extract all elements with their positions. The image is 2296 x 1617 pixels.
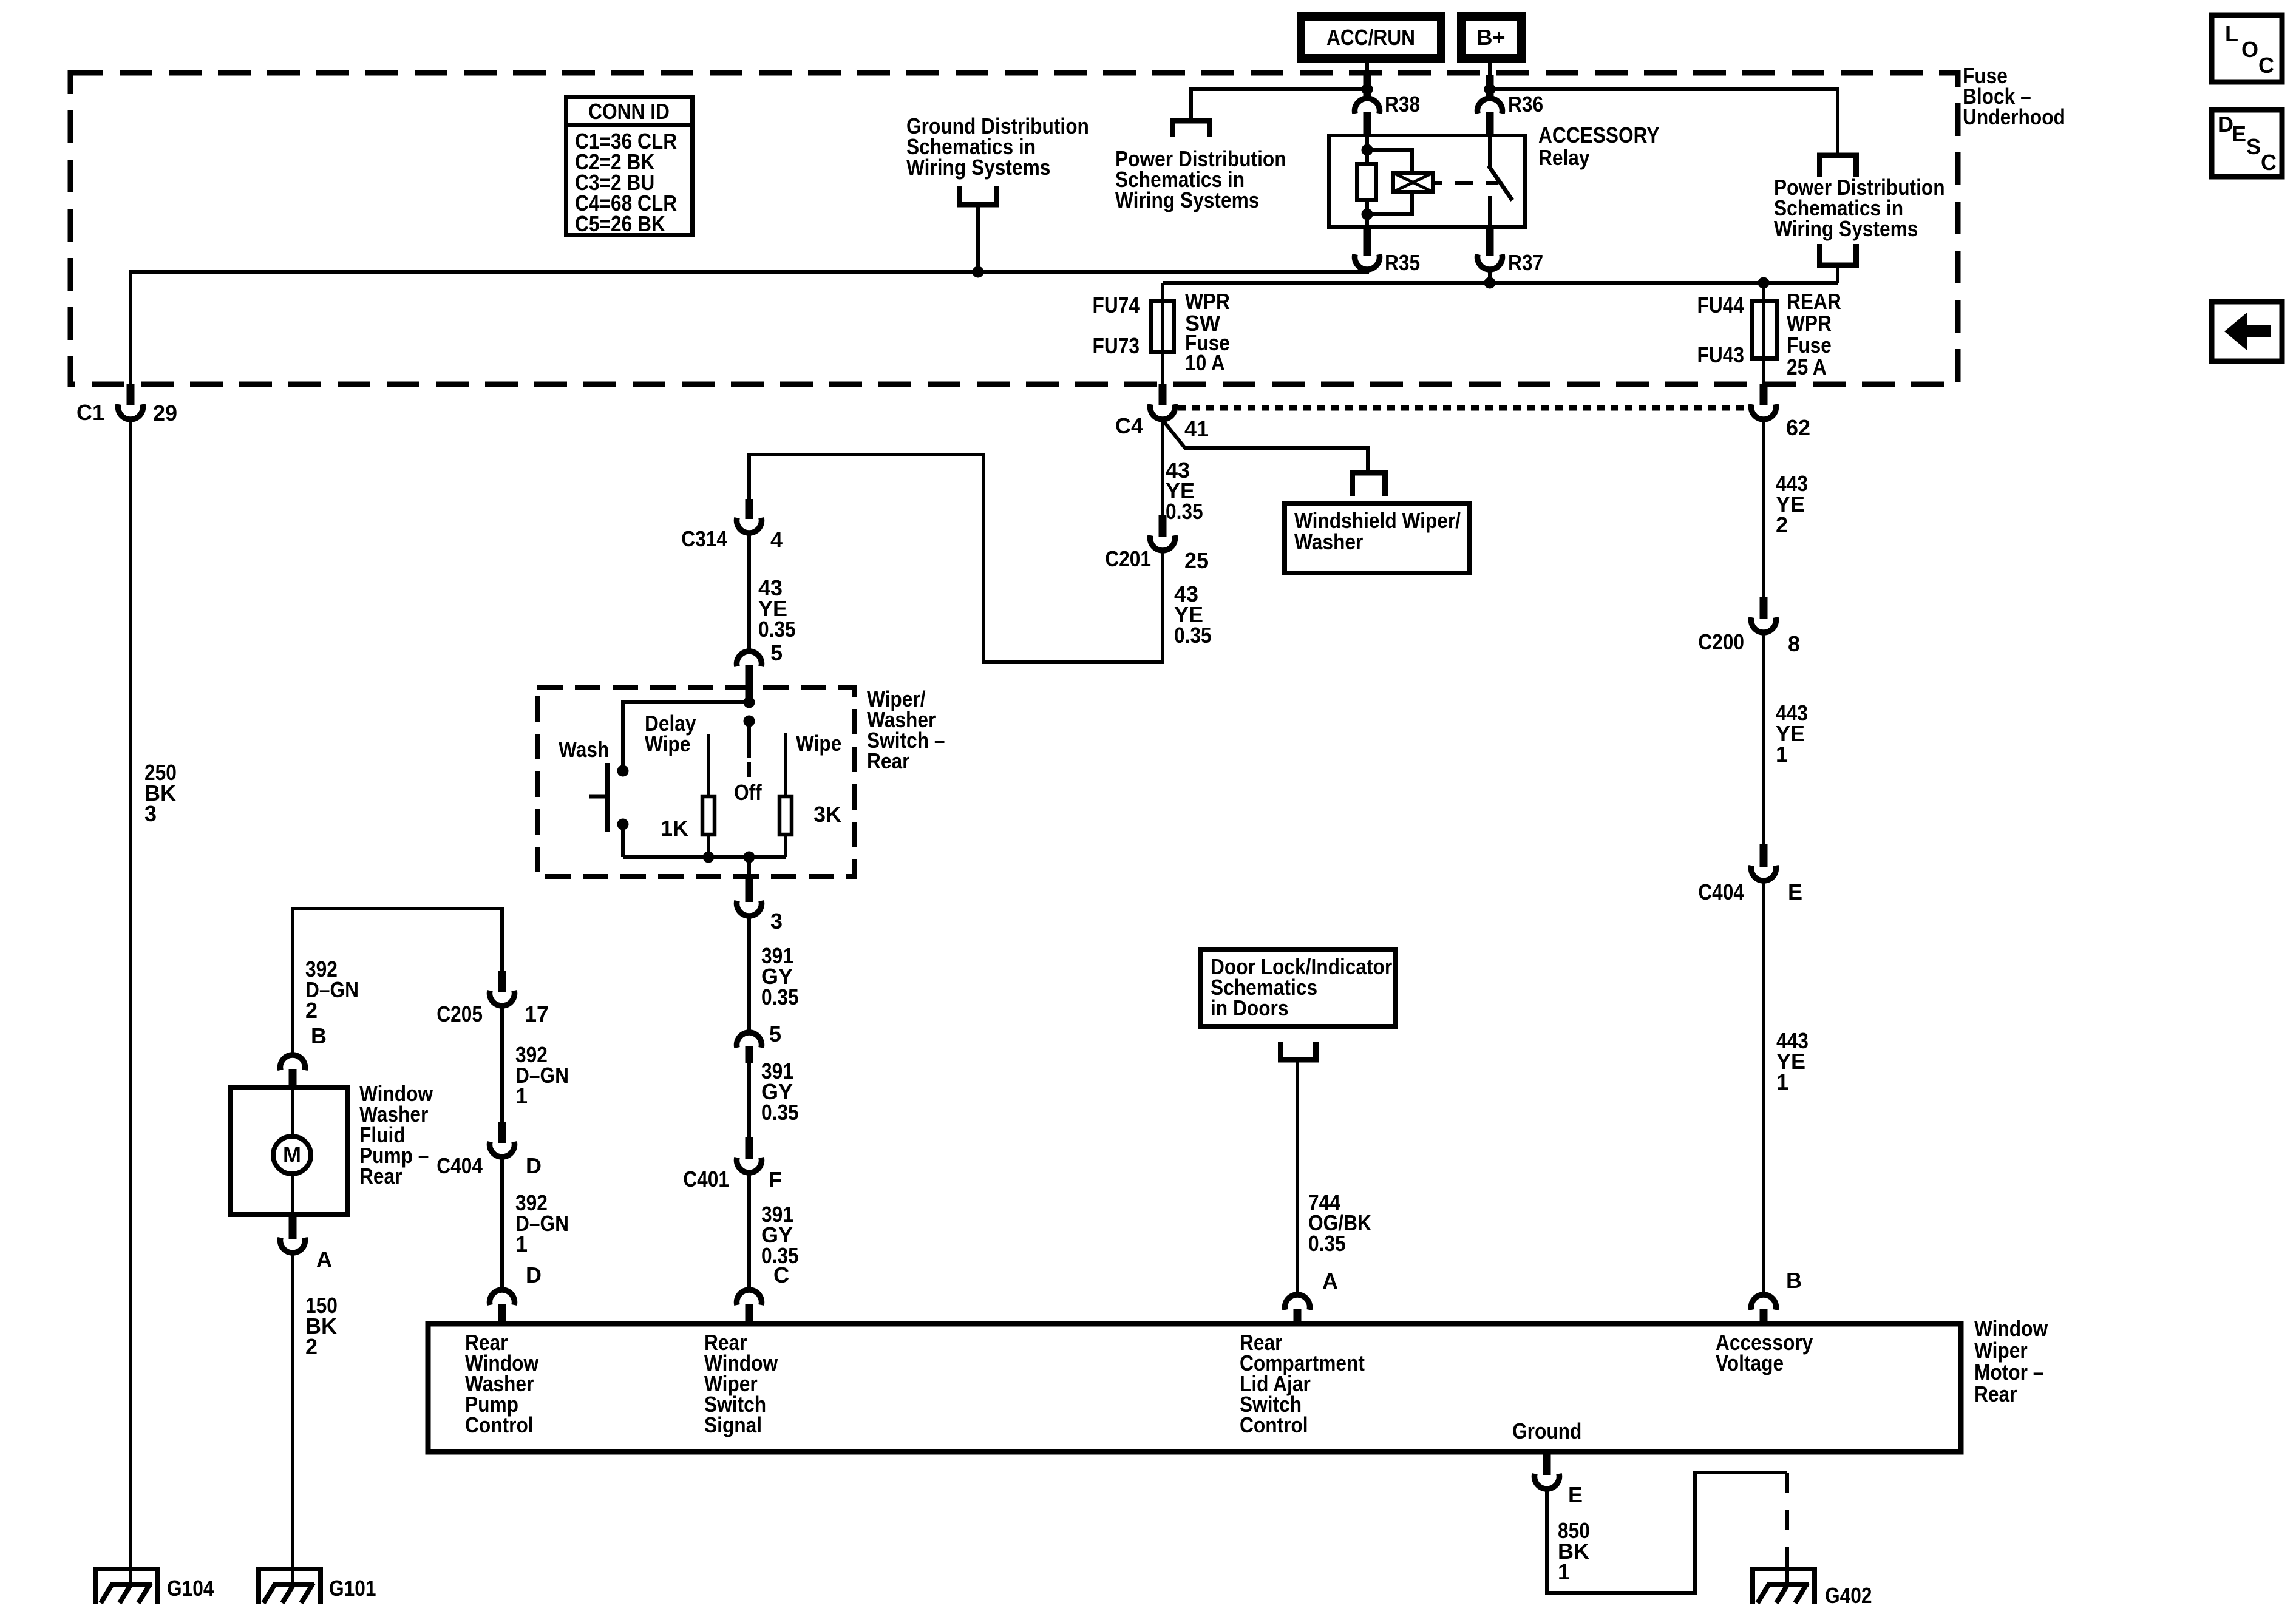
- wire feed bus (lower horizontal): [1163, 281, 1838, 285]
- wire to Power Distribution (right): [1490, 89, 1838, 153]
- switch pin 3: [737, 879, 783, 934]
- wire 391 GY 0.35 (pin3 to pin5): [747, 915, 751, 1030]
- svg-text:Relay: Relay: [1538, 145, 1590, 170]
- box Window Wiper Motor - Rear: [428, 1324, 1961, 1452]
- label: wire 43 YE 0.35 (middle): [1174, 581, 1212, 648]
- connector C404 pin D: [436, 1122, 542, 1178]
- svg-text:B+: B+: [1476, 25, 1505, 50]
- junction dot Ground Distribution: [973, 266, 984, 278]
- svg-text:1: 1: [1776, 1070, 1788, 1094]
- svg-text:C: C: [773, 1263, 789, 1287]
- motor pin A: [1285, 1269, 1339, 1321]
- wire to Power Distribution (left): [1191, 89, 1367, 118]
- resistor 1K lead: [707, 734, 710, 857]
- svg-text:A: A: [316, 1247, 332, 1272]
- wire 443 YE 1 (C404 to motor pin B): [1762, 880, 1765, 1295]
- svg-text:B: B: [311, 1023, 327, 1048]
- off-page bracket Door Lock: [1281, 1042, 1316, 1060]
- svg-text:C404: C404: [436, 1153, 483, 1178]
- svg-text:5: 5: [769, 1022, 781, 1046]
- svg-text:C5=26 BK: C5=26 BK: [575, 211, 665, 236]
- svg-text:CONN ID: CONN ID: [588, 99, 670, 124]
- label: Wiper/Washer Switch - Rear: [867, 686, 945, 773]
- svg-text:2: 2: [305, 1334, 318, 1359]
- svg-text:Wash: Wash: [559, 737, 609, 762]
- svg-text:ACCESSORY: ACCESSORY: [1538, 123, 1660, 147]
- wire 43 YE 0.35 (C314 to switch pin 5): [747, 532, 751, 651]
- label: motor terminal Accessory Voltage: [1716, 1330, 1813, 1375]
- switch box Wiper/Washer Switch - Rear (dashed): [537, 688, 855, 876]
- connector C201 pin 25: [1105, 515, 1209, 573]
- wire bus to R35 (upper horizontal): [131, 270, 1367, 274]
- svg-text:C404: C404: [1698, 880, 1744, 904]
- switch wire to Wash contact: [623, 702, 749, 771]
- label: wire 443 YE 1 (upper): [1776, 700, 1808, 767]
- off-page bracket Ground Distribution: [960, 186, 997, 205]
- svg-text:in Doors: in Doors: [1211, 995, 1289, 1020]
- svg-text:3: 3: [144, 801, 157, 826]
- svg-text:C401: C401: [683, 1167, 729, 1192]
- relay switch contact: [1486, 134, 1512, 229]
- svg-text:Rear: Rear: [359, 1164, 402, 1188]
- label: Delay Wipe: [645, 711, 696, 756]
- svg-text:G104: G104: [167, 1576, 214, 1601]
- switch arm (Off position): [747, 721, 751, 777]
- svg-text:Off: Off: [734, 780, 763, 805]
- wire 392 D-GN 2 (motor D to pump B): [293, 909, 502, 1053]
- svg-text:Control: Control: [1240, 1412, 1308, 1437]
- svg-text:WPR: WPR: [1185, 289, 1230, 314]
- svg-text:C4: C4: [1115, 413, 1143, 438]
- svg-text:8: 8: [1788, 631, 1800, 656]
- svg-text:O: O: [2241, 37, 2258, 62]
- svg-text:L: L: [2225, 21, 2238, 46]
- switch output bus (bottom): [623, 855, 786, 859]
- svg-text:F: F: [769, 1167, 782, 1192]
- switch input junction dots: [744, 697, 755, 727]
- svg-text:0.35: 0.35: [761, 985, 799, 1009]
- ground G402: [1750, 1567, 1872, 1608]
- svg-text:Washer: Washer: [1294, 529, 1363, 554]
- label: wire 443 YE 1 (lower): [1776, 1028, 1809, 1094]
- svg-text:25: 25: [1184, 548, 1209, 573]
- connector R38: [1355, 92, 1421, 134]
- svg-text:5: 5: [770, 640, 783, 665]
- svg-text:Motor –: Motor –: [1974, 1360, 2043, 1385]
- svg-text:C1: C1: [76, 400, 104, 425]
- svg-text:1: 1: [1776, 742, 1788, 767]
- connector C205 pin 17: [436, 971, 549, 1026]
- svg-text:41: 41: [1184, 416, 1209, 441]
- svg-text:C314: C314: [681, 526, 727, 551]
- svg-text:25 A: 25 A: [1787, 354, 1827, 379]
- back-arrow box: [2212, 302, 2282, 361]
- wire C1 drop (vertical upper): [129, 270, 132, 384]
- label: Fuse Block - Underhood: [1963, 63, 2065, 129]
- svg-text:Ground: Ground: [1512, 1419, 1581, 1443]
- connector 62 (fuse block pin 62): [1751, 384, 1811, 440]
- svg-text:C200: C200: [1698, 629, 1744, 654]
- svg-text:Control: Control: [465, 1412, 534, 1437]
- off-page bracket Windshield Wiper/Washer: [1353, 473, 1385, 496]
- svg-text:C205: C205: [436, 1002, 483, 1026]
- box Windshield Wiper/Washer: [1285, 503, 1470, 573]
- connector C4 pin 41: [1115, 384, 1209, 441]
- svg-text:Wiring Systems: Wiring Systems: [906, 155, 1050, 180]
- label: Window Wiper Motor - Rear: [1974, 1316, 2048, 1406]
- motor M (pump): [273, 1085, 311, 1217]
- off-page bracket Power Distribution right (bottom): [1820, 244, 1856, 265]
- svg-text:FU43: FU43: [1697, 342, 1745, 367]
- svg-text:Wiring Systems: Wiring Systems: [1115, 188, 1259, 212]
- label: Window Washer Fluid Pump - Rear: [359, 1081, 433, 1188]
- ground G104: [93, 1567, 214, 1604]
- connector pin 5 (harness): [737, 1022, 782, 1063]
- svg-text:3K: 3K: [813, 802, 841, 827]
- svg-text:3: 3: [770, 909, 783, 934]
- svg-text:Window: Window: [1974, 1316, 2048, 1341]
- svg-text:Voltage: Voltage: [1716, 1351, 1784, 1375]
- label: motor terminal Rear Compartment Lid Ajar Switch Control: [1240, 1330, 1365, 1437]
- svg-text:62: 62: [1786, 415, 1810, 440]
- svg-text:Wipe: Wipe: [796, 731, 841, 756]
- label: wire 43 YE 0.35 (lower): [758, 575, 796, 642]
- svg-text:G101: G101: [329, 1576, 376, 1601]
- junction dot switch output: [744, 852, 755, 863]
- svg-text:E: E: [1788, 880, 1802, 904]
- relay coil (box with X): [1393, 173, 1433, 192]
- svg-text:S: S: [2246, 134, 2261, 159]
- Wash momentary contact: [589, 763, 629, 832]
- svg-text:A: A: [1322, 1269, 1338, 1293]
- svg-text:Wiring Systems: Wiring Systems: [1774, 216, 1918, 241]
- pump pin A: [280, 1217, 333, 1272]
- connector C314 pin 4: [681, 499, 783, 552]
- svg-text:FU73: FU73: [1093, 333, 1140, 358]
- label: wire 250 BK 3: [144, 760, 177, 826]
- connector R37: [1478, 229, 1544, 283]
- wire 850 BK 1 (pin E to G402): [1547, 1473, 1787, 1593]
- wire 391 GY 0.35 (pin5 to C401): [747, 1063, 751, 1137]
- svg-text:R38: R38: [1385, 92, 1420, 117]
- wire 43 YE 0.35 (C201 to C314): [749, 455, 1163, 662]
- svg-text:Signal: Signal: [704, 1412, 762, 1437]
- label: Wash: [559, 737, 609, 762]
- svg-text:C: C: [2258, 53, 2274, 78]
- wire 43 YE 0.35 (C4 to C201): [1161, 418, 1164, 515]
- label: wire 392 D-GN 2: [305, 957, 359, 1023]
- svg-text:1: 1: [515, 1083, 528, 1108]
- wire Wash contact to output: [621, 824, 625, 857]
- svg-text:ACC/RUN: ACC/RUN: [1326, 25, 1415, 50]
- svg-text:Wiper: Wiper: [1974, 1338, 2028, 1363]
- resistor 1K: [661, 796, 715, 841]
- svg-text:4: 4: [770, 527, 783, 552]
- fuse block dashed outline (Fuse Block - Underhood): [70, 73, 1958, 384]
- switch output wire to pin 3: [747, 857, 751, 879]
- DESC reference box: [2212, 110, 2282, 177]
- relay resistor: [1357, 164, 1376, 200]
- label: motor terminal Rear Window Wiper Switch Signal: [704, 1330, 778, 1437]
- svg-text:D: D: [526, 1153, 542, 1178]
- motor pin C: [737, 1263, 790, 1321]
- switch pin 5: [737, 640, 783, 685]
- label: wire 392 D-GN 1 (lower): [515, 1190, 569, 1256]
- connector C401 pin F: [683, 1137, 782, 1192]
- junction dot B+ branch: [1484, 84, 1496, 95]
- connector face C4 dotted line: [1178, 405, 1748, 411]
- svg-text:FU44: FU44: [1697, 293, 1745, 317]
- label: wire 150 BK 2: [305, 1293, 338, 1359]
- junction dot FU44 branch: [1758, 277, 1770, 289]
- svg-text:0.35: 0.35: [761, 1100, 799, 1125]
- label: Off: [734, 780, 763, 805]
- wire Ground Distribution to bus: [976, 207, 980, 274]
- label: wire 744 OG/BK 0.35: [1308, 1190, 1371, 1256]
- wire 150 BK 2 (pump A to G101): [291, 1252, 294, 1585]
- label: Power Distribution Schematics in Wiring Systems (right): [1774, 175, 1945, 241]
- label: wire 850 BK 1: [1558, 1518, 1590, 1584]
- svg-text:B: B: [1786, 1268, 1802, 1293]
- svg-text:Rear: Rear: [1974, 1381, 2017, 1406]
- svg-text:0.35: 0.35: [1308, 1231, 1346, 1256]
- connector C200 pin 8: [1698, 597, 1800, 656]
- wire 443 YE 1 (C200 to C404): [1762, 631, 1765, 844]
- svg-text:29: 29: [153, 401, 177, 425]
- svg-text:Wipe: Wipe: [645, 731, 690, 756]
- switch input stub: [746, 683, 753, 702]
- label: Wipe: [796, 731, 841, 756]
- wire 443 YE 2 (62 to C200): [1762, 418, 1765, 597]
- svg-text:2: 2: [1776, 512, 1788, 537]
- resistor 3K: [779, 796, 841, 835]
- fuse FU44/FU43 REAR WPR Fuse 25A: [1697, 289, 1841, 379]
- pump box Window Washer Fluid Pump - Rear: [231, 1088, 348, 1215]
- junction dot R37 bus: [1484, 277, 1496, 289]
- wire 250 BK 3 (to G104): [129, 418, 132, 1585]
- label: wire 443 YE 2: [1776, 471, 1808, 537]
- relay actuator dashed link: [1435, 181, 1473, 185]
- label: Power Distribution Schematics in Wiring Systems (left): [1115, 146, 1286, 212]
- power feed box ACC/RUN: [1301, 16, 1441, 58]
- svg-text:Underhood: Underhood: [1963, 104, 2065, 129]
- power feed box B+: [1461, 16, 1521, 58]
- wire 392 D-GN 1 (C205 to C404): [500, 1005, 504, 1122]
- svg-text:E: E: [1568, 1482, 1583, 1507]
- label: motor terminal Rear Window Washer Pump Control: [465, 1330, 539, 1437]
- label: wire 392 D-GN 1 (upper): [515, 1042, 569, 1108]
- motor pin E (Ground): [1535, 1452, 1583, 1507]
- svg-text:REAR: REAR: [1787, 289, 1841, 314]
- svg-text:Fuse: Fuse: [1787, 333, 1832, 358]
- svg-text:R37: R37: [1508, 250, 1543, 275]
- label: Ground Distribution Schematics in Wiring Systems: [906, 114, 1089, 180]
- wire 391 GY 0.35 (C401 to motor pin C): [747, 1171, 751, 1287]
- connector R35: [1355, 229, 1421, 275]
- svg-text:G402: G402: [1825, 1583, 1872, 1608]
- svg-text:E: E: [2232, 121, 2246, 146]
- svg-text:WPR: WPR: [1787, 311, 1832, 336]
- svg-text:1K: 1K: [661, 816, 688, 841]
- wire bracket to feed bus: [1836, 268, 1839, 283]
- svg-text:Rear: Rear: [867, 748, 910, 773]
- svg-text:R35: R35: [1385, 250, 1420, 275]
- CONN ID table: [566, 97, 693, 237]
- svg-text:0.35: 0.35: [758, 617, 796, 642]
- svg-text:10 A: 10 A: [1185, 350, 1225, 375]
- label: wire 391 GY 0.35 (3): [761, 1202, 799, 1268]
- svg-text:1: 1: [515, 1232, 528, 1256]
- junction dot 1K output: [703, 852, 715, 863]
- label: wire 391 GY 0.35 (1): [761, 943, 799, 1009]
- svg-text:0.35: 0.35: [1166, 499, 1203, 524]
- wire 744 OG/BK 0.35 (to motor pin A): [1296, 1060, 1299, 1292]
- off-page bracket Power Distribution left: [1173, 121, 1210, 137]
- wire through fuse FU74: [1161, 283, 1164, 384]
- svg-text:2: 2: [305, 998, 318, 1023]
- motor pin D: [490, 1263, 542, 1321]
- svg-text:M: M: [283, 1142, 301, 1167]
- wire through fuse FU44: [1762, 283, 1765, 384]
- connector R36: [1478, 92, 1544, 134]
- relay coil wires: [1367, 150, 1412, 214]
- ground G101: [256, 1567, 376, 1604]
- svg-text:C: C: [2261, 150, 2277, 175]
- connector C1 pin 29: [76, 384, 177, 425]
- junction dot ACC/RUN branch: [1362, 84, 1373, 95]
- label: wire 43 YE 0.35 (upper): [1166, 458, 1203, 524]
- relay box ACCESSORY Relay: [1329, 135, 1525, 227]
- box Door Lock/Indicator Schematics in Doors: [1201, 949, 1396, 1026]
- wire ACC/RUN to relay R38: [1364, 58, 1371, 96]
- svg-text:FU74: FU74: [1093, 293, 1140, 317]
- label: wire 391 GY 0.35 (2): [761, 1059, 799, 1125]
- svg-text:17: 17: [525, 1002, 549, 1026]
- wire C4-41 branch to Windshield Wiper/Washer: [1163, 420, 1368, 473]
- svg-text:0.35: 0.35: [1174, 623, 1212, 648]
- svg-text:D: D: [526, 1263, 542, 1287]
- pump pin B: [280, 1023, 327, 1085]
- dashed wire to G402: [1785, 1473, 1789, 1585]
- label: ACCESSORY Relay: [1538, 123, 1660, 170]
- off-page bracket Power Distribution right (top): [1820, 155, 1856, 177]
- label: motor terminal Ground: [1512, 1419, 1581, 1443]
- LOC reference box: [2212, 15, 2282, 82]
- relay coil junction dots: [1362, 144, 1373, 220]
- connector C404 pin E: [1698, 844, 1802, 904]
- fuse FU74/FU73 WPR SW Fuse 10A: [1093, 289, 1230, 375]
- svg-text:R36: R36: [1508, 92, 1543, 117]
- relay coil branch wire: [1365, 134, 1369, 229]
- svg-text:1: 1: [1558, 1559, 1570, 1584]
- resistor 3K lead: [784, 733, 787, 857]
- wire B+ to relay R36: [1486, 58, 1494, 96]
- wire 392 D-GN 1 (C404 to motor pin D): [500, 1156, 504, 1287]
- svg-text:C201: C201: [1105, 546, 1151, 571]
- motor pin B: [1751, 1268, 1802, 1321]
